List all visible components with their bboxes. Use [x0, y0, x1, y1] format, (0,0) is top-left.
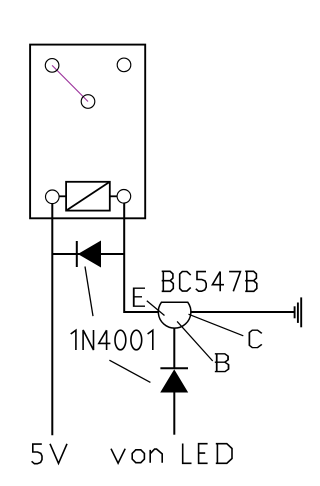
relay coil pin right — [117, 190, 131, 204]
diode D2 from LED — [160, 368, 188, 392]
diode D1 1N4001 flyback — [77, 241, 101, 267]
relay contact pin top-left — [45, 59, 59, 73]
leader line B to base — [177, 321, 213, 361]
leader line E to emitter — [147, 301, 165, 316]
label 1N4001 — [71, 330, 153, 350]
wire 5V rail (left vertical) — [51, 204, 53, 436]
wire to von LED (bottom vertical) — [173, 392, 175, 435]
wire flyback (horizontal) — [52, 253, 124, 255]
transistor Q1 BC547B (TO-92 outline) — [158, 302, 191, 328]
leader line 1N4001 to D2 — [109, 360, 150, 382]
relay switch contact (magenta) — [52, 65, 88, 101]
wire relay coil to emitter — [124, 203, 158, 312]
pin label B — [215, 354, 229, 372]
relay coil pin left — [46, 190, 60, 204]
wire base (vertical) — [173, 328, 175, 368]
relay contact pin common — [81, 95, 95, 109]
relay contact pin top-right — [117, 58, 131, 72]
relay body outline — [30, 45, 145, 219]
pin label C — [249, 330, 261, 347]
ground — [295, 297, 302, 327]
label von LED — [111, 444, 232, 464]
label BC547B — [162, 271, 257, 291]
leader line 1N4001 to D1 — [85, 267, 93, 317]
label 5V — [32, 444, 67, 464]
leader line C to collector — [189, 314, 244, 336]
relay coil — [59, 182, 117, 211]
wire collector to ground — [191, 311, 295, 313]
pin label E — [134, 288, 145, 306]
